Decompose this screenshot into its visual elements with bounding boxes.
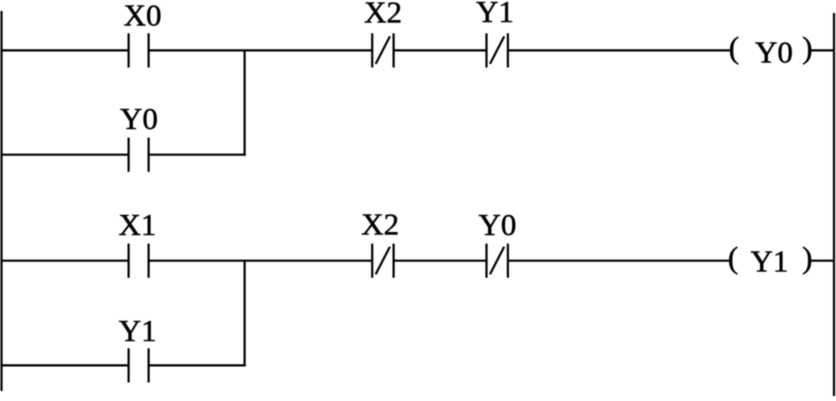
svg-text:Y1: Y1 — [751, 244, 789, 279]
svg-text:X0: X0 — [124, 0, 162, 32]
svg-text:Y1: Y1 — [119, 313, 157, 348]
svg-text:Y1: Y1 — [476, 0, 514, 29]
svg-text:(: ( — [729, 30, 739, 65]
svg-text:Y0: Y0 — [120, 101, 158, 136]
svg-text:Y0: Y0 — [755, 35, 793, 70]
svg-text:X2: X2 — [361, 207, 399, 242]
svg-text:): ) — [802, 30, 812, 65]
svg-text:Y0: Y0 — [479, 207, 517, 242]
svg-text:X1: X1 — [119, 207, 157, 242]
svg-text:): ) — [802, 240, 812, 275]
svg-text:X2: X2 — [364, 0, 402, 30]
svg-text:(: ( — [728, 240, 738, 275]
